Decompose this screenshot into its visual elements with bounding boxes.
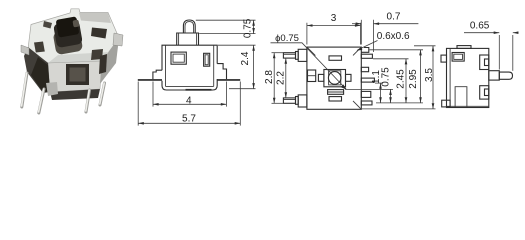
front view: inner window left outer	[171, 52, 186, 64]
top view: left pin top (cap)	[296, 52, 299, 60]
switch photo: cover shading band bottom	[48, 52, 110, 63]
switch photo: base strip	[50, 89, 100, 100]
front view: body outline	[162, 45, 217, 90]
switch photo: left dark side	[24, 47, 50, 93]
dimension 3: dimension line	[307, 25, 361, 27]
svg-text:3: 3	[331, 13, 337, 24]
front view: body inner bottom line	[166, 85, 214, 87]
dimension 5.7: extension lines	[137, 82, 139, 126]
VIEW2 GROUP	[138, 18, 256, 125]
top view: right square boss	[361, 91, 371, 97]
front view: inner window right outer	[204, 53, 210, 66]
front view: pedestal inner walls	[178, 33, 180, 45]
dimension 4: extension lines	[152, 82, 154, 107]
top view: left pin bottom (base)	[298, 95, 307, 107]
side view: inner top-left window	[452, 53, 464, 62]
front view: left tab	[153, 70, 162, 79]
switch photo: cover top-right shadow band	[79, 13, 111, 23]
switch photo: left dark core	[31, 57, 50, 92]
switch photo: right side face	[100, 38, 119, 84]
top view: corner diagonal top-left	[307, 47, 316, 56]
top view: block right tab	[346, 74, 352, 81]
switch photo: cover corner mark right	[91, 28, 107, 39]
front view: body inner side walls	[165, 45, 167, 86]
label 0.6x0.6: leader line	[358, 41, 378, 51]
svg-text:2.45: 2.45	[396, 69, 407, 89]
top view: bottom slot	[329, 97, 342, 101]
top view: right pin 4	[361, 78, 374, 82]
svg-text:0.75: 0.75	[242, 18, 253, 38]
svg-text:0.7: 0.7	[387, 11, 401, 22]
switch photo: bottom bracket	[46, 82, 58, 96]
svg-text:2.8: 2.8	[264, 70, 275, 84]
switch photo: front window inner	[70, 68, 86, 82]
svg-text:2.95: 2.95	[408, 69, 419, 89]
switch photo: pin left-1	[22, 73, 27, 107]
PHOTO GROUP	[21, 9, 123, 113]
dimension 0.7: dimension line with outside arrows	[352, 23, 361, 25]
dimension 2.8: dimension line	[273, 53, 275, 104]
svg-text:5.7: 5.7	[182, 113, 196, 124]
side view: right notch lower	[480, 86, 489, 99]
side view: bottom thick line	[447, 105, 489, 107]
dimension 3: extension lines	[306, 23, 308, 45]
dimension 5.7: dimension line	[138, 122, 240, 124]
top view: block left tab	[318, 74, 324, 81]
switch photo: button cap	[56, 16, 80, 37]
switch photo: right flange	[113, 33, 123, 46]
top view: right pin 1 with chamfer	[361, 48, 369, 53]
top view: corner diagonal top-right	[353, 47, 361, 55]
dimension 0.75 v2: extension lines	[196, 19, 256, 21]
switch photo: pin right-1	[86, 90, 90, 112]
dimension 2.45: line	[405, 59, 407, 103]
top view: right pin 3	[361, 67, 368, 71]
dimension 0.75: top extension	[345, 88, 393, 90]
dimension 3.5: top extension	[414, 45, 436, 47]
top view: top slot	[329, 56, 342, 60]
dimension 1.1: top extension	[375, 82, 383, 84]
dimension 0.75: line	[390, 89, 392, 103]
svg-text:0.65: 0.65	[470, 20, 490, 31]
top view: center circle	[328, 72, 341, 85]
svg-text:3.5: 3.5	[424, 68, 435, 82]
top view: left pin bottom (cap)	[296, 97, 299, 105]
switch photo: metal cover top face	[28, 9, 119, 63]
label phi0.75: leader line	[271, 43, 347, 89]
dimension 2.4: dimension line	[253, 45, 255, 88]
dimension 2.95: line	[420, 50, 422, 103]
switch photo: button mid	[53, 20, 83, 48]
top view: left pin top (base)	[298, 49, 307, 61]
switch photo: button highlight	[72, 20, 79, 28]
VIEW3 GROUP	[264, 11, 436, 109]
front view: bottom thick segment	[186, 89, 212, 91]
front view: plunger pedestal	[177, 33, 199, 45]
right chain: bottom shared extension	[376, 102, 423, 104]
top view: left pin top (bar)	[283, 53, 295, 58]
top view: right pin 5	[361, 101, 372, 105]
dimension 3.5: line	[432, 46, 434, 109]
side view: left upper tab	[441, 55, 447, 62]
front view: plunger dome	[183, 20, 195, 33]
side view: inner step	[455, 87, 467, 107]
switch photo: pin left-2	[39, 89, 44, 113]
front view: inner window left inner	[173, 54, 184, 62]
side view: inner left wall	[449, 48, 451, 107]
front view: plunger dome inner wall	[185, 22, 194, 33]
switch photo: pin right-2	[100, 83, 105, 105]
switch photo: front window	[66, 64, 89, 85]
svg-text:0.75: 0.75	[380, 67, 391, 87]
dimension 2.95: top extension	[370, 49, 424, 51]
svg-text:4: 4	[186, 95, 192, 106]
side view: plunger tip	[499, 72, 512, 79]
top view: left pin bottom (bar)	[283, 98, 295, 103]
dimension 2.45: top extension	[373, 58, 409, 60]
dimension 0.65: extension lines	[498, 35, 500, 70]
top view: corner diagonal bottom-right	[353, 101, 361, 109]
switch photo: front face	[48, 61, 102, 92]
dimension 2.8: extension lines	[272, 52, 284, 54]
right chain: body bottom extension	[362, 108, 436, 110]
svg-text:2.2: 2.2	[276, 71, 287, 85]
dimension 0.75 v2: dimension line	[253, 20, 255, 33]
svg-text:ϕ0.75: ϕ0.75	[275, 33, 299, 44]
top view: block bottom plate	[328, 90, 344, 95]
svg-text:0.6x0.6: 0.6x0.6	[377, 31, 410, 42]
top view: center inner square	[329, 71, 341, 85]
front view: inner window right inner	[205, 55, 208, 65]
side view: right notch upper	[480, 55, 489, 70]
switch photo: right side window	[99, 54, 107, 74]
dimension 1.1: line	[380, 83, 382, 103]
top view: center block	[324, 70, 346, 87]
side view: left lower foot	[442, 100, 450, 107]
switch photo: left flange	[21, 45, 29, 55]
dimension 2.2: dimension line	[285, 58, 287, 98]
front view: right foot plate	[217, 79, 240, 81]
side view: plunger base	[489, 71, 500, 80]
dimension 4: dimension line	[153, 103, 226, 105]
front view: right step	[217, 64, 226, 80]
dimension 0.65: dimension line with outside arrows	[464, 32, 499, 34]
switch photo: cover corner mark bottom-left	[34, 42, 45, 53]
switch photo: cover corner mark top-left	[43, 21, 52, 29]
top view: body outline	[307, 47, 361, 109]
top view: right pin 2	[361, 54, 372, 58]
front view: left foot plate	[138, 79, 162, 81]
VIEW4 GROUP	[441, 20, 519, 107]
side view: top raised tab	[457, 46, 471, 49]
svg-text:2.4: 2.4	[240, 51, 251, 65]
switch photo: button collar	[53, 28, 84, 55]
side view: body outline	[447, 48, 489, 107]
dimension 2.4: extension lines	[218, 44, 256, 46]
dimension 0.7: extension lines	[360, 20, 362, 45]
top view: left inner contact	[308, 70, 316, 82]
switch photo: cover corner mark bottom-right	[91, 49, 103, 60]
